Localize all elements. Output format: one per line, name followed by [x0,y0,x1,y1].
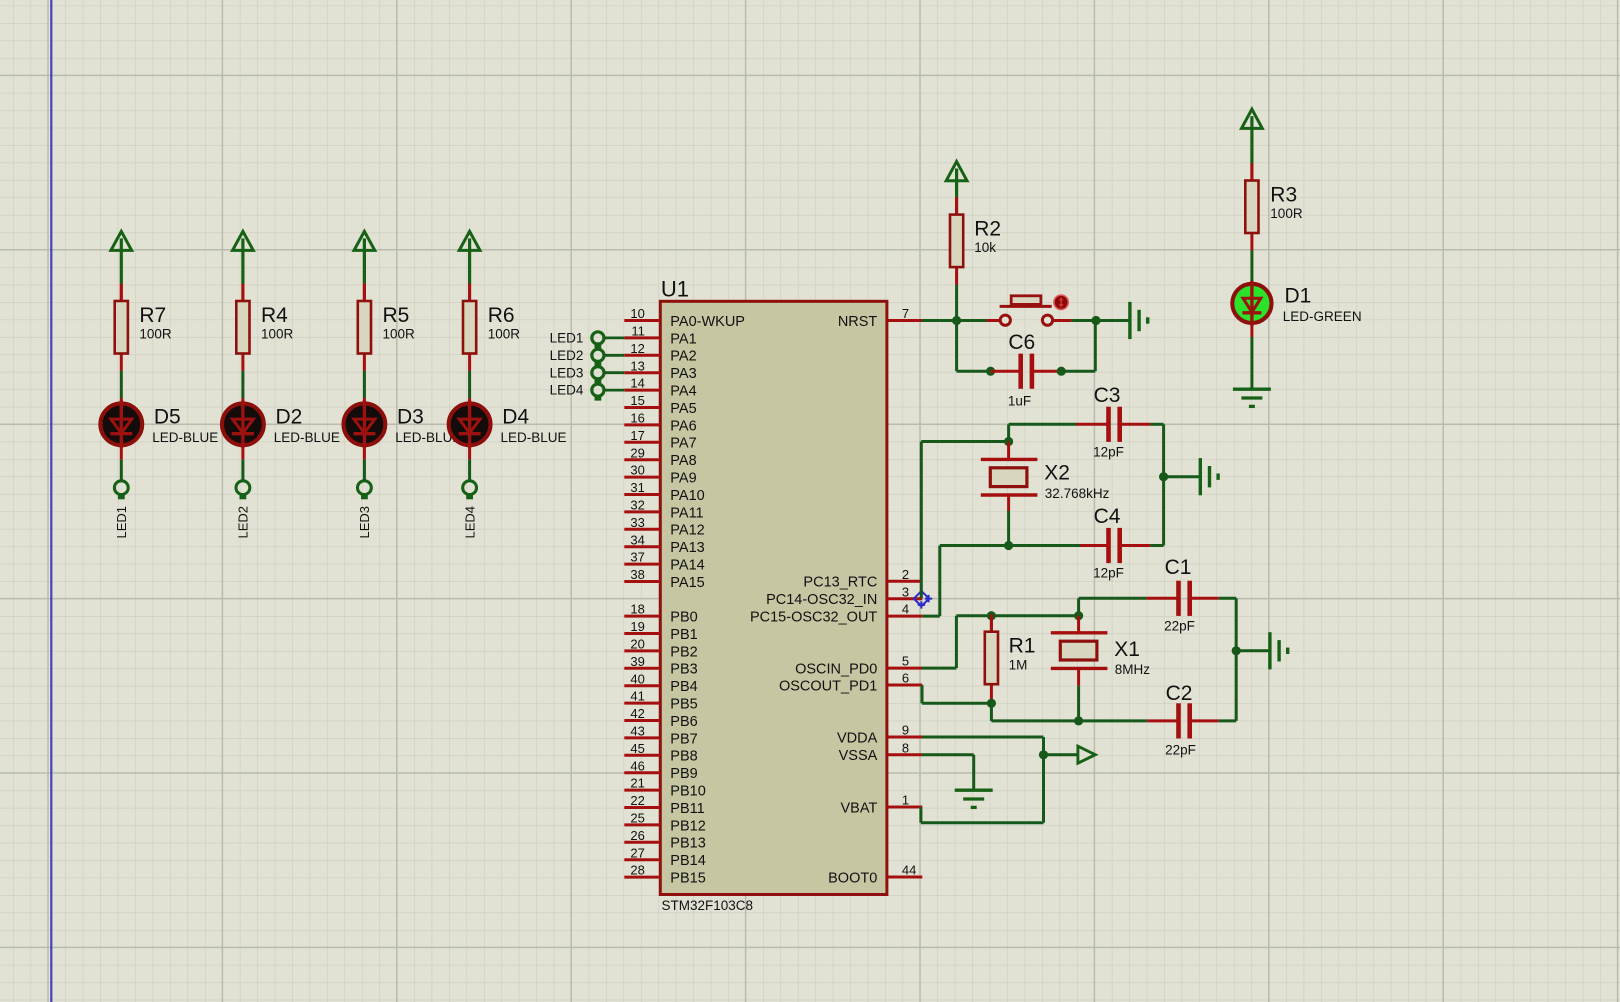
sheet border [50,0,52,1002]
pin 7 NRST [838,306,922,330]
svg-text:PA3: PA3 [670,366,696,382]
svg-text:3: 3 [902,584,909,599]
svg-text:PC14-OSC32_IN: PC14-OSC32_IN [766,592,877,608]
power arrow (right) [1078,746,1095,763]
pin 25 PB12 [624,811,705,835]
svg-text:PB13: PB13 [670,836,705,852]
svg-text:12pF: 12pF [1093,444,1124,459]
LED D4 [449,400,567,448]
junction [1074,716,1083,725]
capacitor C4 [1093,505,1124,581]
wire PC15 to osc [922,615,940,618]
svg-text:PA10: PA10 [670,488,704,504]
pin of D1 [1250,325,1253,337]
junction [1091,316,1100,325]
pin 26 PB13 [624,828,705,852]
wire OSCOUT to R1 [922,702,991,705]
pin of C4 [1121,544,1151,547]
pin of R7 [120,284,123,301]
svg-text:U1: U1 [661,277,689,302]
pin of R2 [955,197,958,215]
svg-text:20: 20 [630,637,644,652]
wire [468,371,471,398]
svg-text:LED-BLUE: LED-BLUE [501,430,567,445]
junction [1159,472,1168,481]
svg-text:22: 22 [630,793,644,808]
svg-text:32: 32 [630,498,644,513]
wire right rail [1235,598,1238,721]
wire [468,460,471,482]
pin of D3 [363,447,366,460]
wire C6 to NRST [1061,370,1095,373]
svg-text:PA0-WKUP: PA0-WKUP [670,314,745,330]
pin 9 VDDA [837,723,922,747]
junction [1004,541,1013,550]
pin 2 PC13_RTC [803,567,922,591]
pin of X1 [1077,616,1080,633]
svg-text:12: 12 [630,341,644,356]
svg-text:VSSA: VSSA [839,748,878,764]
wire to ground [1236,649,1270,652]
svg-text:R7: R7 [139,304,166,327]
pin 15 PA5 [624,393,696,417]
svg-text:30: 30 [630,463,644,478]
svg-text:LED1: LED1 [114,506,129,539]
power terminal LED4 column [459,231,480,283]
resistor R4 [236,284,293,371]
svg-text:X1: X1 [1114,638,1140,661]
wire [1162,424,1165,545]
svg-text:11: 11 [631,324,645,339]
svg-text:LED3: LED3 [357,506,372,539]
svg-text:16: 16 [630,411,644,426]
wire osc bottom rail [991,719,1147,722]
svg-text:PA13: PA13 [670,540,704,556]
LED D2 [222,400,340,448]
pin of C1 [1146,597,1177,600]
terminal LED4 at PA4 [550,383,625,401]
pin 3 PC14-OSC32_IN [766,584,922,608]
svg-text:PB8: PB8 [670,749,697,765]
junction [1004,437,1013,446]
svg-text:14: 14 [630,376,644,391]
button actuator marker [1054,295,1068,309]
svg-text:34: 34 [630,532,644,547]
svg-text:C6: C6 [1008,331,1035,354]
svg-text:LED2: LED2 [236,506,251,539]
svg-text:R4: R4 [261,304,288,327]
LED D3 [344,400,462,448]
svg-text:9: 9 [902,723,909,738]
svg-text:R1: R1 [1009,635,1036,658]
ground (reset) [1130,302,1148,339]
pin 18 PB0 [624,602,697,626]
svg-text:D2: D2 [276,406,303,429]
svg-text:45: 45 [630,741,644,756]
pin 22 PB11 [624,793,704,817]
svg-text:PA4: PA4 [670,384,696,400]
wire C3 to gnd branch [1150,423,1163,426]
resistor R7 [115,284,172,371]
pin of D4 [468,398,471,402]
pin 33 PA12 [624,515,704,539]
pin of D3 [363,398,366,402]
svg-text:8: 8 [902,740,909,755]
wire X2 bottom [1007,511,1010,546]
pin of C6 [991,370,1020,373]
pin of R5 [363,284,366,301]
pin 12 PA2 [624,341,696,365]
IC U1 STM32F103C8 body [660,301,887,894]
svg-text:PB15: PB15 [670,871,705,887]
svg-text:PB7: PB7 [670,731,697,747]
wire [363,460,366,482]
svg-text:STM32F103C8: STM32F103C8 [662,898,754,913]
pin of C3 [1076,423,1108,426]
svg-text:31: 31 [630,480,644,495]
wire to ground [1071,319,1130,322]
pin of R6 [468,284,471,301]
wire to C1 [1079,597,1147,600]
pin 14 PA4 [624,376,696,400]
wire [1007,424,1010,441]
wire to X2 top [921,440,1008,443]
wire down to C6 [955,321,958,372]
svg-text:PB4: PB4 [670,679,697,695]
svg-text:PB5: PB5 [670,697,697,713]
svg-text:7: 7 [902,306,909,321]
pin 6 OSCOUT_PD1 [779,671,922,695]
pin 20 PB2 [624,637,697,661]
svg-text:PA6: PA6 [670,418,696,434]
svg-text:19: 19 [630,619,644,634]
pin of X2 [1007,495,1010,511]
wire to ground [1164,475,1201,478]
svg-text:PC15-OSC32_OUT: PC15-OSC32_OUT [750,610,877,626]
svg-text:D3: D3 [397,406,424,429]
pin 8 VSSA [839,740,923,764]
ground (32k osc) [1200,458,1218,495]
wire OSCOUT down [921,685,924,703]
svg-text:LED-GREEN: LED-GREEN [1283,309,1362,324]
terminal LED3 [358,481,372,495]
crystal X2 [981,459,1110,501]
pin of button [987,319,1001,322]
svg-text:PA12: PA12 [670,523,704,539]
pin of D2 [241,447,244,460]
pin 44 BOOT0 [828,863,922,887]
svg-text:PB14: PB14 [670,853,705,869]
junction [987,699,996,708]
wire [955,616,958,668]
svg-text:LED4: LED4 [550,383,584,398]
junction [986,367,995,376]
pin 29 PA8 [624,445,696,469]
svg-text:1: 1 [902,793,909,808]
svg-text:PA8: PA8 [670,453,696,469]
wire to VBAT [921,821,1044,824]
svg-text:27: 27 [630,845,644,860]
svg-text:PA2: PA2 [670,349,696,365]
push button [1000,296,1053,326]
svg-text:100R: 100R [1270,206,1303,221]
pin of D2 [241,398,244,402]
wire [241,460,244,482]
pin 32 PA11 [624,498,703,522]
pin of C4 [1080,544,1108,547]
svg-text:37: 37 [630,550,644,565]
wire OSCIN [922,667,957,670]
svg-text:LED-BLUE: LED-BLUE [152,430,218,445]
wire VSSA down [972,755,975,790]
ground (8M osc) [1270,632,1288,669]
terminal LED2 at PA2 [550,348,625,366]
terminal LED4 [463,481,477,495]
svg-text:LED3: LED3 [550,365,584,380]
svg-text:PB2: PB2 [670,644,697,660]
svg-text:C1: C1 [1165,556,1192,579]
svg-text:5: 5 [902,654,909,669]
wire PC14 net vertical [920,442,923,599]
ground (VSSA) [955,790,993,807]
pin 13 PA3 [624,358,696,382]
pin of D5 [120,398,123,402]
svg-text:LED4: LED4 [462,506,477,539]
pin 41 PB5 [624,689,697,713]
pin 4 PC15-OSC32_OUT [750,602,922,626]
svg-text:PA1: PA1 [670,331,696,347]
pin 46 PB9 [624,758,697,782]
svg-text:46: 46 [630,758,644,773]
svg-text:25: 25 [630,811,644,826]
svg-text:X2: X2 [1044,461,1070,484]
wire [363,371,366,398]
svg-text:C4: C4 [1094,505,1121,528]
resistor R1 [985,614,1036,701]
wire [957,370,991,373]
svg-text:39: 39 [630,654,644,669]
pin 45 PB8 [624,741,697,765]
svg-text:D4: D4 [502,406,529,429]
svg-text:100R: 100R [261,327,294,342]
pin 11 PA1 [624,324,696,348]
pin 5 OSCIN_PD0 [795,654,922,678]
svg-text:D1: D1 [1285,285,1312,308]
svg-text:PB11: PB11 [670,801,704,817]
svg-text:VDDA: VDDA [837,730,878,746]
resistor R6 [463,284,520,371]
wire [938,546,941,617]
svg-text:28: 28 [630,863,644,878]
wire [919,807,922,823]
pin 1 VBAT [841,793,923,817]
wire D1 to ground [1250,337,1253,389]
pin of R1 [990,616,993,632]
pin 28 PB15 [624,863,705,887]
svg-text:R5: R5 [383,304,410,327]
svg-text:44: 44 [902,863,916,878]
resistor R3 [1245,163,1303,250]
svg-text:38: 38 [630,567,644,582]
svg-text:15: 15 [630,393,644,408]
pin of R4 [241,284,244,301]
terminal LED1 at PA1 [550,331,625,349]
wire [990,703,993,721]
svg-text:PA11: PA11 [670,505,703,521]
pin 37 PA14 [624,550,704,574]
svg-text:PB3: PB3 [670,662,697,678]
pin 10 PA0 [624,306,745,330]
pin 34 PA13 [624,532,704,556]
capacitor C3 [1093,384,1124,460]
crystal X1 [1051,633,1151,677]
wire R2 to NRST net [955,285,958,321]
svg-text:C3: C3 [1094,384,1121,407]
svg-text:22pF: 22pF [1165,743,1196,758]
wire [241,371,244,398]
wire VDDA [922,736,1044,739]
junction [1039,750,1048,759]
svg-text:10k: 10k [974,240,996,255]
wire C2 to right rail [1219,719,1237,722]
svg-text:PB12: PB12 [670,818,705,834]
svg-text:BOOT0: BOOT0 [828,870,877,886]
junction [1232,646,1241,655]
pin of D5 [120,447,123,460]
svg-text:PB6: PB6 [670,714,697,730]
resistor R5 [358,284,415,371]
junction [987,611,996,620]
capacitor C1 [1164,556,1195,633]
svg-text:10: 10 [630,306,644,321]
pin 39 PB3 [624,654,697,678]
svg-text:1uF: 1uF [1008,394,1031,409]
svg-text:PA14: PA14 [670,558,704,574]
wire osc top rail [956,614,1078,617]
wire [1250,250,1253,281]
svg-text:17: 17 [630,428,644,443]
wire [1077,598,1080,615]
svg-text:100R: 100R [488,327,521,342]
svg-text:43: 43 [630,724,644,739]
power for R2 [946,162,967,198]
svg-text:R3: R3 [1270,183,1297,206]
power terminal LED2 column [233,231,254,283]
pin of X2 [1007,442,1010,460]
pin of R3 [1250,164,1253,181]
pin 40 PB4 [624,671,697,695]
svg-text:8MHz: 8MHz [1115,662,1151,677]
pin 21 PB10 [624,776,705,800]
pin of button [1053,319,1072,322]
wire VSSA [922,753,974,756]
wire [120,371,123,398]
svg-text:100R: 100R [139,327,172,342]
LED D1 green [1232,281,1361,326]
pin of C3 [1121,423,1151,426]
pin 38 PA15 [624,567,704,591]
capacitor C2 [1165,682,1196,758]
svg-text:PA15: PA15 [670,575,704,591]
svg-text:R6: R6 [488,304,515,327]
wire C4 row [940,544,1080,547]
power for R3 [1242,109,1263,164]
wire to power arrow [1044,753,1078,756]
capacitor C6 [1008,331,1035,409]
svg-text:18: 18 [630,602,644,617]
pin of C6 [1033,370,1062,373]
svg-text:41: 41 [630,689,644,704]
terminal LED3 at PA3 [550,365,625,383]
svg-text:PA9: PA9 [670,471,696,487]
junction [1057,367,1066,376]
terminal LED2 [236,481,250,495]
svg-text:D5: D5 [154,406,181,429]
svg-text:21: 21 [630,776,644,791]
node marker pin 3 [914,591,933,609]
svg-text:PB10: PB10 [670,784,705,800]
resistor R2 [950,197,1001,284]
svg-text:29: 29 [630,445,644,460]
junction [952,316,961,325]
svg-text:PA5: PA5 [670,401,696,417]
svg-text:LED2: LED2 [550,348,584,363]
svg-text:LED1: LED1 [550,331,584,346]
wire to C3 [1009,423,1076,426]
svg-text:42: 42 [630,706,644,721]
pin of X1 [1077,668,1080,686]
svg-text:LED-BLUE: LED-BLUE [274,430,340,445]
pin of D4 [468,447,471,460]
svg-text:NRST: NRST [838,314,878,330]
pin 42 PB6 [624,706,697,730]
wire NRST net [922,319,987,322]
pin of C2 [1191,719,1219,722]
svg-text:6: 6 [902,671,909,686]
wire X1 bottom [1077,686,1080,721]
terminal LED1 [114,481,128,495]
LED D5 [100,400,218,448]
svg-text:PB9: PB9 [670,766,697,782]
svg-text:4: 4 [902,602,909,617]
pin 19 PB1 [624,619,697,643]
svg-text:32.768kHz: 32.768kHz [1045,486,1110,501]
svg-text:12pF: 12pF [1093,566,1124,581]
svg-text:OSCIN_PD0: OSCIN_PD0 [795,662,877,678]
svg-text:C2: C2 [1166,682,1193,705]
svg-text:R2: R2 [974,217,1001,240]
svg-text:PB0: PB0 [670,610,697,626]
pin 17 PA7 [624,428,696,452]
power terminal LED1 column [111,231,132,283]
pin 43 PB7 [624,724,697,748]
pin of C1 [1191,597,1219,600]
wire [120,460,123,482]
svg-text:40: 40 [630,671,644,686]
svg-text:33: 33 [630,515,644,530]
svg-text:2: 2 [902,567,909,582]
svg-text:VBAT: VBAT [841,800,878,816]
wire [1042,737,1045,823]
wire [1094,321,1097,372]
pin 31 PA10 [624,480,704,504]
svg-text:26: 26 [630,828,644,843]
wire C4 to vertical [1150,544,1163,547]
pin 16 PA6 [624,411,696,435]
svg-text:PC13_RTC: PC13_RTC [803,575,877,591]
svg-text:PB1: PB1 [670,627,697,643]
power terminal LED3 column [354,231,375,283]
